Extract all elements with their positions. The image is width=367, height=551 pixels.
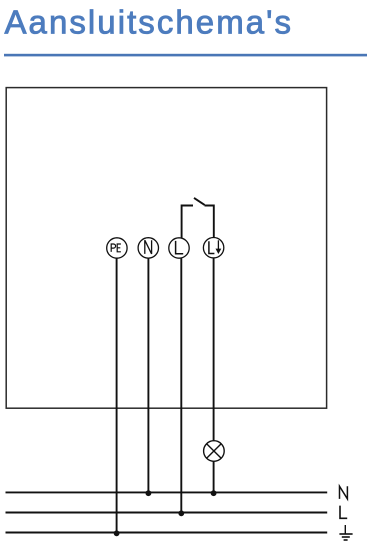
svg-text:Aansluitschema's: Aansluitschema's: [5, 4, 294, 41]
